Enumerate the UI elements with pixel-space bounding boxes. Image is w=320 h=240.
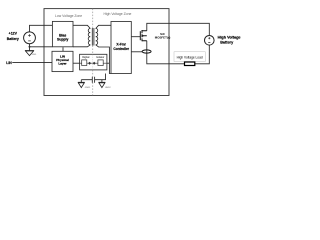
svg-text:LIN: LIN bbox=[6, 61, 12, 65]
svg-text:GND: GND bbox=[32, 54, 37, 56]
svg-text:MOSFET(s): MOSFET(s) bbox=[155, 35, 171, 39]
svg-text:High Voltage Zone: High Voltage Zone bbox=[103, 12, 131, 16]
svg-text:High Voltage: High Voltage bbox=[218, 36, 241, 40]
svg-text:Digital: Digital bbox=[82, 56, 89, 59]
svg-text:Battery: Battery bbox=[220, 40, 234, 44]
svg-text:High Voltage Load: High Voltage Load bbox=[177, 55, 203, 59]
svg-text:+12V: +12V bbox=[9, 31, 18, 35]
svg-text:GND1: GND1 bbox=[85, 87, 91, 89]
svg-text:Supply: Supply bbox=[57, 38, 68, 42]
svg-text:Low Voltage Zone: Low Voltage Zone bbox=[55, 14, 82, 18]
svg-text:Isolator: Isolator bbox=[96, 56, 104, 59]
svg-text:Controller: Controller bbox=[113, 47, 129, 51]
svg-text:Battery: Battery bbox=[7, 37, 19, 41]
svg-text:Layer: Layer bbox=[58, 61, 67, 65]
svg-text:GND2: GND2 bbox=[105, 87, 111, 89]
